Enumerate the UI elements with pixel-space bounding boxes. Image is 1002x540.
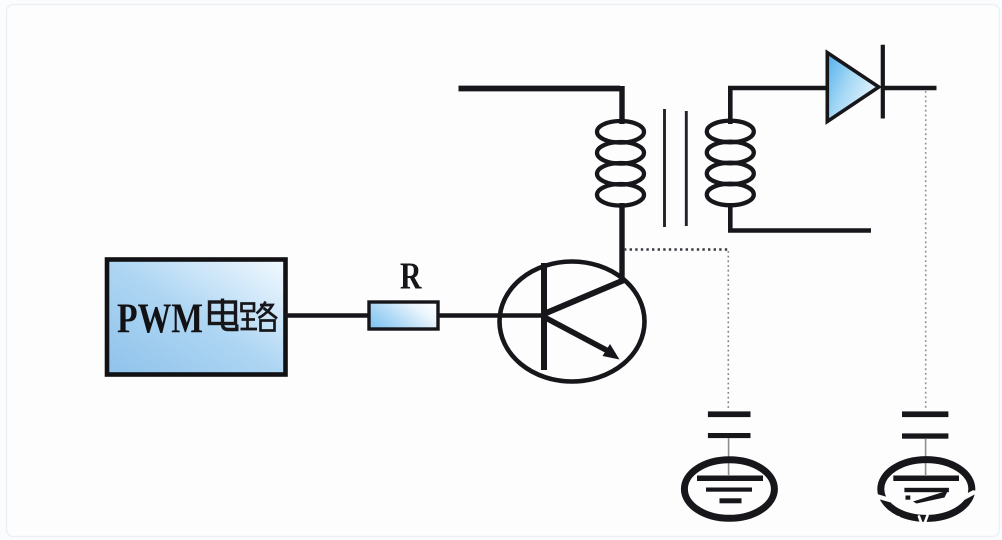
wire: primary coil to collector [619,203,624,283]
hanzi dian (电) [210,299,237,330]
PWM box U1 [107,260,286,375]
inductor L2 secondary winding [707,121,754,206]
transformer core line 1 [663,109,666,227]
transistor base bar [541,263,547,370]
wire: top-left horizontal [459,86,621,92]
inductor L1 primary winding [597,121,644,206]
svg-text:PWM: PWM [117,296,203,342]
capacitor C2 [902,411,948,475]
resistor R [369,302,438,329]
capacitor C1 [708,411,751,475]
watermark scribbles over G2 [874,493,974,528]
diode cathode bar [881,45,885,119]
transistor Q1 circle [500,262,645,382]
hanzi lu (路) [241,302,278,331]
dotted wire from diode output down to C2 [925,91,927,410]
transformer core line 2 [685,111,688,226]
earth ground G2 [881,460,972,519]
transistor collector stroke [545,281,623,314]
dotted wire down to C1 [727,251,729,410]
wire: secondary top [730,88,827,124]
wire: box to resistor [285,313,370,317]
transistor emitter arrow [545,318,620,360]
wire: secondary bottom [730,203,871,231]
svg-text:R: R [400,256,422,298]
wire: diode output [885,86,937,91]
diode D1 [827,53,879,122]
wire: resistor to base [438,313,545,317]
earth ground G1 [684,460,774,519]
wire: down to primary coil [619,86,624,124]
dotted wire from collector node [624,248,729,250]
